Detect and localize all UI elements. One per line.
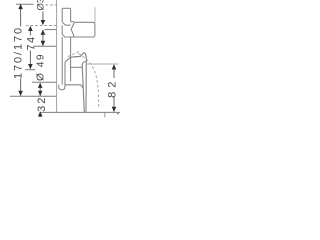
arrow mid up <box>41 30 46 35</box>
dim o38 stem <box>42 12 44 22</box>
dimension lines <box>21 5 114 118</box>
plate bottom tab <box>59 85 65 90</box>
extension lines <box>10 4 120 112</box>
dim 32 stems <box>39 91 41 117</box>
wall line <box>56 0 58 112</box>
svg-text:32: 32 <box>36 96 48 112</box>
ext top <box>16 3 34 5</box>
plate back edge <box>70 8 72 81</box>
svg-text:74: 74 <box>26 35 38 50</box>
handle tip extension <box>94 7 96 22</box>
svg-text:Ø38: Ø38 <box>36 0 47 10</box>
arrowheads <box>18 4 116 117</box>
arrow 49 up <box>38 83 43 88</box>
arrow 32 up <box>38 111 43 116</box>
dim 74 line <box>29 27 31 68</box>
spout underside <box>70 66 82 68</box>
arrow 49 down <box>38 91 43 96</box>
ext 49 top <box>32 81 56 83</box>
dashed ext y25.6 <box>26 25 56 27</box>
dashed line D <box>79 54 99 108</box>
dark mark bottom right <box>117 113 118 114</box>
plate top edge <box>62 7 70 9</box>
spout lower edge <box>64 62 66 85</box>
arrow 82 up <box>112 64 117 69</box>
svg-text:82: 82 <box>107 78 119 98</box>
arrow 82 down <box>112 107 117 112</box>
spout nose inner <box>82 62 86 65</box>
arrow mid down <box>41 41 46 46</box>
ext mid upper <box>45 29 57 31</box>
arrow 170 up <box>18 4 23 9</box>
arrow o38 down <box>41 20 46 25</box>
spout inner edge <box>82 65 84 113</box>
arrow 74 up <box>28 26 33 31</box>
spout outer edge <box>85 58 87 112</box>
handle step <box>71 21 74 23</box>
arrow 170 down <box>18 91 23 96</box>
ext 32 bottom <box>41 111 120 113</box>
handle chamfer <box>62 22 70 25</box>
lever-down shelf <box>65 85 83 88</box>
ext 82 top <box>86 63 118 65</box>
dashed line C <box>68 51 81 57</box>
spout top and nose <box>70 53 86 58</box>
handle neck arc <box>71 23 74 37</box>
svg-text:170/170: 170/170 <box>12 26 24 79</box>
arrow 74 down <box>28 64 33 69</box>
dashed ext y5 <box>46 4 57 6</box>
ext mid lower <box>33 45 56 47</box>
handle lever <box>62 22 95 37</box>
dim 82 line <box>113 65 115 112</box>
dim 170 line <box>20 5 22 96</box>
ext bottom <box>10 95 56 97</box>
dim mid line <box>42 30 44 46</box>
stub line bottom right <box>104 113 106 118</box>
dim 49 line <box>39 83 41 96</box>
wire <box>57 0 95 112</box>
plate front edge <box>61 8 63 85</box>
ext 74 bottom <box>25 69 35 71</box>
spout connector <box>65 57 70 62</box>
labels <box>12 0 118 112</box>
svg-text:Ø 49: Ø 49 <box>36 53 47 81</box>
node dashed swing arcs <box>68 51 99 107</box>
